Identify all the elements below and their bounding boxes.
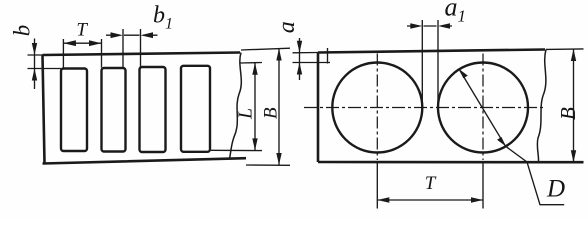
dimension B right line	[573, 49, 575, 162]
dimension b1 extension lines	[123, 29, 141, 67]
dimension T right line	[377, 199, 483, 201]
svg-text:b1: b1	[153, 3, 173, 33]
dimension a arrows	[297, 41, 302, 75]
svg-text:T: T	[425, 173, 437, 194]
hole circle 1	[332, 63, 422, 153]
left view plate outline	[43, 53, 247, 164]
dimension L extension lines	[211, 63, 262, 151]
slot 2	[102, 68, 126, 152]
dimension b arrows	[32, 43, 37, 81]
left view bottom edge extension beyond break	[246, 164, 290, 166]
svg-text:B: B	[260, 107, 281, 119]
diameter D leader line	[459, 69, 564, 205]
dimension a extension lines	[293, 48, 331, 64]
dimension T line	[63, 42, 101, 44]
svg-text:a: a	[274, 21, 300, 33]
left view break line (wavy)	[230, 53, 242, 159]
dimension L line	[254, 63, 256, 151]
horizontal centerline	[304, 107, 543, 109]
dimension T extension lines	[63, 39, 101, 69]
dimension L arrows	[252, 63, 257, 151]
dimension a1 line and outside arrows	[407, 25, 452, 27]
dimension T right arrows	[377, 197, 483, 202]
slot 3	[140, 67, 166, 152]
svg-text:a1: a1	[445, 0, 467, 25]
right view break line (wavy)	[537, 50, 546, 163]
dimension T right extension lines	[377, 162, 483, 209]
dimension b extension lines	[28, 55, 62, 69]
hole circle 2	[438, 63, 528, 153]
diameter D arrows	[459, 69, 506, 146]
dimension T arrows	[63, 40, 101, 46]
vertical centerline circle 2	[482, 54, 484, 161]
svg-text:D: D	[546, 176, 565, 203]
left view top edge extension beyond break	[241, 48, 290, 50]
right view plate outline	[318, 50, 584, 163]
dimension a line	[299, 38, 301, 80]
svg-text:b: b	[9, 25, 34, 37]
vertical centerline circle 1	[376, 54, 378, 161]
dimension B left line	[278, 49, 280, 166]
svg-text:T: T	[76, 20, 88, 41]
slot 1	[61, 69, 87, 152]
slot 4	[181, 66, 210, 152]
dimension B left arrows	[276, 49, 281, 166]
dimension b line	[34, 39, 36, 90]
svg-text:L: L	[234, 108, 256, 120]
svg-text:B: B	[556, 107, 580, 120]
right view top edge extension beyond break	[546, 48, 584, 51]
dimension a1 extension lines	[422, 20, 438, 110]
dimension b1 line and outside arrows	[106, 34, 158, 36]
dimension B right arrows	[571, 49, 576, 162]
